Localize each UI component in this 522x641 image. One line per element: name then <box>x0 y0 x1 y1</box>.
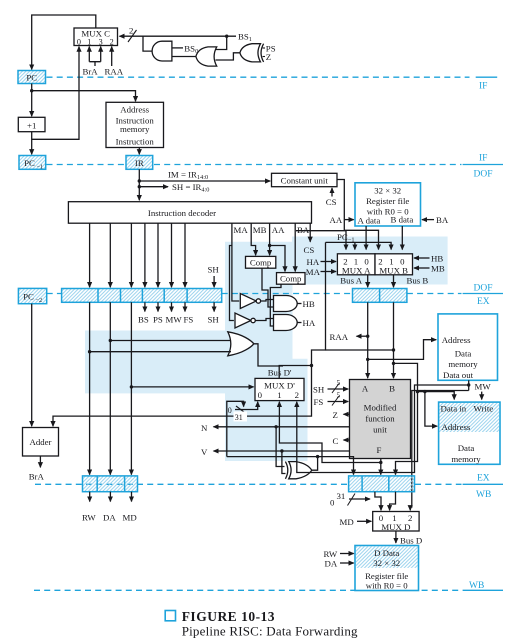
svg-text:SH: SH <box>208 314 220 324</box>
svg-text:DOF: DOF <box>474 284 493 294</box>
wire and output up to select line <box>143 36 152 51</box>
shaded region behind MUX A / MUX B <box>292 237 448 285</box>
svg-text:MD: MD <box>340 517 354 527</box>
wire BA from decoder to Comp 2 <box>294 223 296 271</box>
wire Comp 1 output to HB gate <box>262 268 274 307</box>
wire to or gate input 2 <box>90 351 231 353</box>
svg-text:BrA: BrA <box>29 472 45 482</box>
svg-text:B: B <box>389 384 395 394</box>
svg-text:Bus B: Bus B <box>407 276 429 286</box>
svg-text:Pipeline RISC: Data Forwarding: Pipeline RISC: Data Forwarding <box>182 623 358 638</box>
svg-text:memory: memory <box>120 124 150 134</box>
svg-text:SH: SH <box>208 265 220 275</box>
comparator Comp 1 <box>246 256 276 268</box>
svg-text:FS: FS <box>314 397 324 407</box>
label RAA with arrow <box>330 332 368 342</box>
svg-text:Register file: Register file <box>365 571 408 581</box>
node IR output branch SH <box>138 185 141 188</box>
svg-text:0: 0 <box>228 406 232 415</box>
svg-text:MA: MA <box>306 267 321 277</box>
svg-text:BA: BA <box>436 215 449 225</box>
node junction or input 2 <box>88 350 91 353</box>
node Bus B bypass branch <box>392 362 395 365</box>
node IR output branch IM <box>138 179 141 182</box>
label MW with arrow into write <box>475 381 492 399</box>
svg-text:PS: PS <box>153 314 163 324</box>
mux C U1 <box>74 28 118 47</box>
svg-text:CS: CS <box>304 245 315 255</box>
svg-text:IF: IF <box>479 82 487 92</box>
svg-text:Modified: Modified <box>364 403 397 413</box>
svg-text:RAA: RAA <box>105 67 124 77</box>
svg-text:PC: PC <box>24 158 35 168</box>
svg-text:C: C <box>333 436 339 446</box>
stage boundary DOF/EX (y=293.5) <box>47 293 503 295</box>
svg-text:PC: PC <box>26 73 37 83</box>
svg-text:DOF: DOF <box>474 170 493 180</box>
wire or output to and gate <box>172 56 196 58</box>
svg-text:B data: B data <box>391 215 414 225</box>
wire CS into constant unit <box>331 188 333 197</box>
instruction decoder box <box>68 202 311 224</box>
svg-text:BA: BA <box>297 225 310 235</box>
wire inverter 2 to HA gate <box>255 319 273 321</box>
mux D box <box>373 512 419 532</box>
svg-text:2: 2 <box>129 26 133 36</box>
stage boundary IF/DOF (y=164.5) <box>47 164 504 166</box>
node Bus A RAA branch <box>366 335 369 338</box>
svg-text:RW: RW <box>82 513 96 523</box>
wire MUX C output to PC <box>32 15 96 70</box>
modified function unit box <box>350 380 411 459</box>
svg-text:Comp: Comp <box>250 258 272 268</box>
wire address into write memory <box>425 392 437 427</box>
node data out branch <box>467 383 470 386</box>
wire Comp 2 output to HA gate <box>270 284 281 326</box>
constant unit box <box>272 173 338 186</box>
svg-text:FS: FS <box>184 314 194 324</box>
svg-text:EX: EX <box>477 297 490 307</box>
label HB with arrow into MUX B select <box>414 254 443 264</box>
label Z flag output <box>333 410 350 420</box>
svg-text:N: N <box>201 423 208 433</box>
and gate HB <box>274 296 298 312</box>
svg-text:A: A <box>362 384 369 394</box>
register file box <box>355 183 421 226</box>
wire forwarding vertical 2 <box>109 302 111 474</box>
wire decoder output 3 to EX register <box>130 223 132 287</box>
node xor output junction <box>316 455 319 458</box>
svg-text:Data: Data <box>458 443 475 453</box>
svg-text:unit: unit <box>373 425 387 435</box>
svg-text:Data in: Data in <box>441 404 467 414</box>
svg-text:1: 1 <box>87 38 91 47</box>
svg-text:Write: Write <box>474 404 494 414</box>
svg-text:2: 2 <box>110 38 114 47</box>
wire PC to instruction memory address <box>32 91 136 102</box>
wire to MUX D' left input <box>131 386 253 388</box>
svg-text:Z: Z <box>333 410 338 420</box>
svg-text:MUX A: MUX A <box>342 265 371 275</box>
svg-text:with R0 = 0: with R0 = 0 <box>366 581 408 591</box>
svg-text:Bus A: Bus A <box>340 276 362 286</box>
node N tap to xor <box>274 425 277 428</box>
inverter 1 <box>240 294 260 309</box>
wire xor output <box>312 457 318 471</box>
or gate (forward select) <box>228 332 254 356</box>
mux D' box <box>255 378 304 400</box>
wire PC-1 to MUX A input 2 <box>296 231 346 250</box>
svg-text:AA: AA <box>272 225 285 235</box>
svg-text:HA: HA <box>303 318 316 328</box>
wire WB register F value to MUX D input 0 <box>375 492 381 511</box>
wire SH into EX register <box>213 276 215 287</box>
wire RW out <box>89 492 91 502</box>
svg-text:MW: MW <box>166 314 183 324</box>
instruction memory box <box>106 102 164 147</box>
wire inverter 1 to HB gate <box>261 300 274 302</box>
label C flag output <box>333 436 350 446</box>
svg-text:CS: CS <box>326 197 337 207</box>
xor gate (PS xor Z) <box>240 44 264 62</box>
node junction or input 1 <box>109 339 112 342</box>
and gate (branch logic) <box>152 41 172 61</box>
svg-text:Data out: Data out <box>443 370 474 380</box>
comparator Comp 2 <box>277 273 306 285</box>
zero fill slash and wire to MUX D' input 0 <box>228 402 258 415</box>
wire constant unit output to MUX B input 2 <box>337 180 379 250</box>
wire MB from decoder to Comp 1 <box>251 223 255 255</box>
wire y350 segment <box>326 349 394 351</box>
svg-text:MUX D': MUX D' <box>264 381 295 391</box>
data memory write box <box>439 402 500 464</box>
wire WB register bypass value to MUX D input 1 <box>390 492 396 511</box>
svg-text:IF: IF <box>479 154 487 164</box>
wire or gate output <box>254 344 283 366</box>
label RW with arrow into D register file <box>324 549 354 559</box>
and gate HA <box>274 315 298 331</box>
svg-text:memory: memory <box>448 359 478 369</box>
wire AA branch to Comp 2 <box>270 246 285 272</box>
stage boundary IF (y=77) <box>47 76 498 78</box>
wire decoder output 5 to EX register <box>157 223 159 287</box>
wire xor result to zero fill loop <box>227 456 318 458</box>
wire decoder output 4 to EX register <box>144 223 146 287</box>
wire DA out <box>109 492 111 502</box>
svg-text:5: 5 <box>337 391 341 400</box>
svg-text:32 × 32: 32 × 32 <box>374 186 401 196</box>
svg-text:MB: MB <box>253 225 267 235</box>
wire xor output to or gate <box>216 53 240 60</box>
wire BS1 branch into or gate <box>216 36 227 49</box>
svg-text:RAA: RAA <box>330 332 349 342</box>
svg-text:Address: Address <box>442 422 471 432</box>
adder +1 box <box>18 117 45 131</box>
svg-text:FIGURE 10-13: FIGURE 10-13 <box>182 609 275 624</box>
node junction mux D' select <box>130 385 133 388</box>
svg-text:Instruction: Instruction <box>116 137 155 147</box>
wire Data out to MUX D input 2 <box>410 391 469 511</box>
label FS with 5-bit slash into function unit <box>314 391 349 408</box>
node address branch <box>423 390 426 393</box>
svg-text:WB: WB <box>469 581 484 591</box>
svg-text:+1: +1 <box>27 120 36 130</box>
wire A data to MUX A input 0 <box>365 226 367 250</box>
svg-text:MUX B: MUX B <box>379 265 408 275</box>
wire decoder output 1 to EX register <box>89 223 91 287</box>
wire N flag line <box>201 423 350 433</box>
register PC <box>18 71 46 84</box>
svg-text:Instruction decoder: Instruction decoder <box>148 208 216 218</box>
label AA with arrow into register file <box>330 215 354 225</box>
svg-text:AA: AA <box>330 215 343 225</box>
wire Bus D' forwarding to MUX A and MUX B input 1 <box>326 242 392 249</box>
svg-text:function: function <box>365 414 395 424</box>
wire Bus D' stub to MUX A input 1 <box>354 242 356 249</box>
inverter 2 <box>235 313 255 328</box>
data memory read box <box>438 314 498 380</box>
label BS0 with stub <box>172 43 198 55</box>
wire Bus A to data memory address <box>368 340 437 360</box>
wire IR to instruction decoder <box>138 169 140 200</box>
wire MUX C select input with 2-bit slash <box>120 26 237 43</box>
or gate (branch logic) <box>196 47 217 66</box>
pipeline register EX/WB right <box>349 476 415 492</box>
wire branch address line to Adder <box>53 366 312 427</box>
label DA with arrow into D register file <box>325 559 354 569</box>
svg-text:PC: PC <box>23 292 34 302</box>
svg-text:31: 31 <box>337 491 346 501</box>
wire F output to WB register <box>380 459 382 475</box>
svg-text:WB: WB <box>476 490 491 500</box>
svg-text:Address: Address <box>120 104 149 114</box>
wire forwarding vertical 3 <box>130 302 132 474</box>
svg-text:32 × 32: 32 × 32 <box>373 558 400 568</box>
svg-text:2: 2 <box>295 390 299 400</box>
svg-text:DA: DA <box>325 559 338 569</box>
shaded forwarding region (EX stage, left band and center column) <box>85 242 308 461</box>
wire BS out of EX register <box>144 302 146 311</box>
wire CS from decoder <box>309 223 311 242</box>
svg-text:Data: Data <box>455 349 472 359</box>
label BA with arrow into register file <box>422 215 449 225</box>
wire MD out <box>131 492 133 502</box>
svg-text:3: 3 <box>99 38 103 47</box>
pipeline register DOF/EX left <box>62 289 222 303</box>
register IR <box>126 156 153 170</box>
D register file box <box>355 546 419 591</box>
wire forwarding vertical 1 <box>89 302 91 474</box>
svg-text:V: V <box>201 447 208 457</box>
svg-text:MUX D: MUX D <box>381 522 410 532</box>
wire xor result to WB register <box>318 457 354 475</box>
svg-text:D Data: D Data <box>374 548 399 558</box>
wire data in from bypass <box>418 392 455 400</box>
adder box <box>23 428 59 457</box>
node bypass data in branch <box>416 390 419 393</box>
svg-text:A data: A data <box>358 216 381 226</box>
node F branch <box>379 461 382 464</box>
wire to or gate input 1 <box>110 340 231 342</box>
svg-text:−1: −1 <box>37 163 44 170</box>
wire PC-2 to adder <box>31 304 33 427</box>
svg-text:F: F <box>377 445 382 455</box>
mux A box <box>337 254 375 276</box>
xor gate N xor V <box>285 462 311 479</box>
wire SH out of EX register <box>213 302 215 311</box>
node Bus A address branch <box>366 358 369 361</box>
svg-text:memory: memory <box>451 454 481 464</box>
svg-text:1: 1 <box>277 390 281 400</box>
wire HA output with label <box>297 318 316 328</box>
wire F forward to MUX D' input 1 <box>279 402 380 463</box>
wire MUX B output to Bus B register <box>393 275 395 287</box>
register PC-2 <box>18 288 46 304</box>
svg-text:Register file: Register file <box>366 196 409 206</box>
wire MW out of EX register <box>171 302 173 311</box>
zero fill 31-0 slash arrow <box>330 491 370 508</box>
node BS1 junction <box>225 35 228 38</box>
wire Bus B bypass around function unit to WB register <box>394 363 418 474</box>
label Z <box>263 52 272 62</box>
svg-text:MB: MB <box>431 264 445 274</box>
svg-text:0: 0 <box>77 38 81 47</box>
svg-text:0: 0 <box>258 390 263 400</box>
wire V flag line <box>201 447 350 457</box>
label MD with arrow into MUX D <box>340 517 372 527</box>
svg-text:HA: HA <box>307 257 320 267</box>
node V tap to xor <box>280 449 283 452</box>
svg-text:0: 0 <box>330 498 335 508</box>
wire B data to MUX B input 0 <box>401 226 403 250</box>
label SH with 5-bit slash into function unit <box>313 378 348 394</box>
svg-text:BrA: BrA <box>83 67 99 77</box>
node PC output branch <box>30 89 33 92</box>
wire HB output with label <box>297 299 315 309</box>
wire decoder output 7 to EX register <box>184 223 186 287</box>
wire Bus D' output stair up to MUX A/B input 1 <box>279 242 325 378</box>
svg-text:5: 5 <box>337 378 341 387</box>
svg-text:HB: HB <box>431 254 443 264</box>
svg-text:Address: Address <box>442 335 471 345</box>
wire V to xor input <box>282 451 286 474</box>
svg-text:Constant unit: Constant unit <box>281 176 329 186</box>
stage boundary EX/WB (y=484.3) <box>35 483 503 485</box>
wire RAA into MUX C input 2 <box>111 47 113 66</box>
pipeline register EX/WB left <box>83 476 138 492</box>
wire MA from decoder <box>232 223 239 301</box>
wire PC to +1 <box>31 84 33 117</box>
wire AA from decoder to Comp 1 <box>269 223 271 255</box>
svg-text:IR: IR <box>135 158 144 168</box>
node Bus D' adder branch <box>310 364 313 367</box>
wire decoder output 6 to EX register <box>171 223 173 287</box>
svg-text:Adder: Adder <box>30 437 52 447</box>
label 31 of zero fill <box>234 412 248 423</box>
label HA with arrow into MUX A select <box>307 257 337 267</box>
figure caption square <box>165 611 175 621</box>
label MA with arrow into MUX A select <box>306 267 336 277</box>
svg-text:Bus D: Bus D <box>400 536 422 546</box>
wire BrA into MUX C inputs 1 and 3 <box>89 47 100 66</box>
wire Data out down <box>468 380 470 390</box>
wire Bus A register to function unit A <box>367 302 369 378</box>
svg-text:−2: −2 <box>36 297 43 304</box>
svg-text:MUX C: MUX C <box>81 28 110 38</box>
wire Data out forward to MUX D' input 2 <box>297 385 469 473</box>
svg-text:HB: HB <box>303 299 315 309</box>
wire MA branch to inverter 2 <box>230 246 234 321</box>
label MB with arrow into MUX B select <box>414 264 445 274</box>
register PC-1 <box>19 156 46 171</box>
svg-text:MW: MW <box>475 381 492 391</box>
wire decoder output 2 to EX register <box>109 223 111 287</box>
wire adder output BrA <box>39 456 41 467</box>
stage boundary WB (y=590.3) <box>34 589 503 591</box>
pipeline register Bus A / Bus B <box>353 289 407 303</box>
wire MUX A output to Bus A register <box>367 275 369 287</box>
svg-text:MD: MD <box>123 513 137 523</box>
wire PS out of EX register <box>157 302 159 311</box>
svg-text:SH: SH <box>313 384 325 394</box>
svg-text:RW: RW <box>324 549 338 559</box>
svg-text:Comp: Comp <box>280 274 302 284</box>
wire N xor V bit loop into bit 0 <box>227 401 244 456</box>
svg-text:31: 31 <box>235 413 243 422</box>
label PS <box>263 44 276 54</box>
mux B box <box>375 254 413 276</box>
node AA branch <box>268 244 271 247</box>
node Bus B bus D prime crossing <box>392 348 395 351</box>
wire FS out of EX register <box>184 302 186 311</box>
svg-text:DA: DA <box>103 513 116 523</box>
wire SH stub <box>139 186 168 188</box>
svg-text:MA: MA <box>234 225 249 235</box>
svg-text:Z: Z <box>266 52 271 62</box>
wire instruction memory to IR <box>138 148 140 155</box>
wire +1 to PC-1 <box>31 132 33 155</box>
wire N to xor input <box>276 427 284 467</box>
wire Bus B register to function unit B <box>393 302 395 378</box>
svg-text:BS: BS <box>138 314 149 324</box>
wire IM to constant unit <box>139 180 270 182</box>
wire MUX D output Bus D <box>396 531 422 546</box>
wire incremented PC up to MUX C input 0 <box>32 47 79 140</box>
svg-text:EX: EX <box>477 474 490 484</box>
